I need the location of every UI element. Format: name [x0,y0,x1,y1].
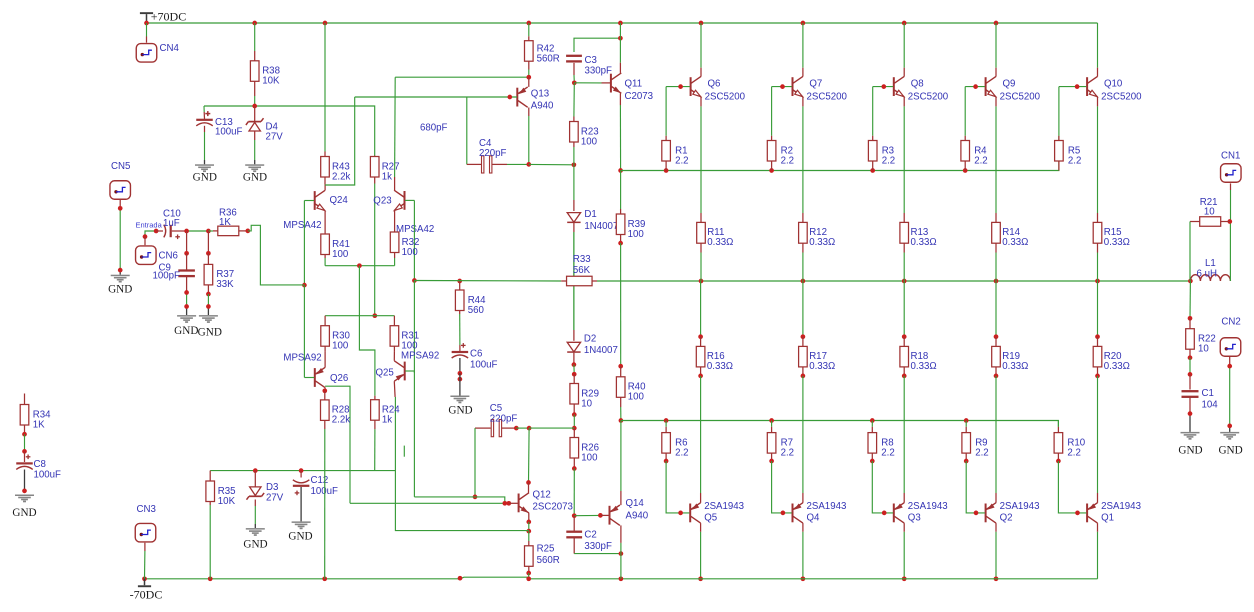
wire L1 right up [1229,222,1231,282]
wire C3 top [574,38,620,52]
svg-text:100uF: 100uF [34,470,62,481]
resistor R10 2.2 [1054,427,1086,461]
ground C13 [193,164,217,183]
label A940 [531,101,554,112]
svg-text:10: 10 [1198,344,1209,355]
wire Q23 collector to R42 node [395,77,529,190]
wire C10 to branch [187,230,209,232]
junction R17 bottom [801,374,806,379]
svg-text:100pF: 100pF [153,270,181,281]
junction D1 top [572,162,577,167]
wire top +70V rail [147,22,1098,24]
junction top rail Q11 [618,21,623,26]
wire branch to R36 [208,230,213,232]
junction Q11 base node [572,80,577,85]
resistor R15 0.33 [1093,213,1130,253]
wire tail to R24 [359,266,375,396]
resistor R33 56K [561,276,597,286]
svg-text:Q11: Q11 [625,79,643,90]
label Q12 [533,490,551,501]
svg-text:6 uH: 6 uH [1197,268,1217,279]
resistor R8 2.2 [868,427,895,461]
junction R9 bottom [964,459,969,464]
wire D1 to D2 [573,223,575,341]
label CN2 [1221,317,1240,328]
wire R5 to base [1058,87,1060,136]
wire R26 to Q14 base [573,469,575,516]
wire C5 left lead [475,427,491,429]
wire Q5 collector to bottom rail [700,523,702,579]
svg-text:330pF: 330pF [585,66,613,77]
resistor R1 2.2 [662,136,689,171]
capacitor C13 100uF [196,111,242,137]
resistor R18 0.33 [900,337,937,376]
svg-text:CN4: CN4 [160,43,180,54]
junction C6 gnd [458,377,463,382]
wire Q1 collector to bottom rail [1097,523,1099,579]
junction tail [357,263,362,268]
transistor Q4 2SA1943 [793,503,803,523]
junction orail Q10 [1095,279,1100,284]
wire Q26 collector node [324,388,326,391]
transistor Q5 2SA1943 [690,503,700,523]
wire bottom -70V rail [145,577,1098,579]
junction R39 bottom [618,241,623,246]
wire rail to Q7 collector [802,23,804,77]
junction C9 pin [184,251,189,256]
ground C8 [12,495,36,520]
resistor R25 560R [525,541,560,573]
wire Q12 collector line [528,428,531,482]
wire node to D4 [254,106,256,121]
svg-text:R25: R25 [537,544,555,555]
resistor R7 2.2 [767,427,794,461]
junction Q1 base [1075,511,1080,516]
wire R30 to Q26 emitter [324,351,326,367]
junction Q13 base [507,95,512,100]
svg-text:GND: GND [12,507,36,519]
svg-text:Q7: Q7 [809,78,822,89]
wire Q24 collector node [325,97,355,190]
junction brail R3 [870,168,875,173]
svg-text:2.2: 2.2 [975,447,988,458]
svg-text:A940: A940 [531,101,554,112]
svg-text:Q1: Q1 [1101,513,1114,524]
wire Q14 collector to rail [620,554,622,579]
label 56K [573,265,591,276]
svg-text:2SC5200: 2SC5200 [908,91,949,102]
junction R8 bottom [870,459,875,464]
svg-text:100: 100 [332,341,349,352]
svg-text:D1: D1 [584,209,596,220]
svg-text:1K: 1K [33,419,45,430]
svg-text:MPSA92: MPSA92 [283,353,321,364]
label 2SA1943 Q2 [1000,501,1040,512]
wire D2-R29 gap [573,365,575,375]
junction bottom rail R28 [322,576,327,581]
wire Q7 base [772,86,792,88]
resistor R37 33K [204,253,234,294]
wire D3 lead [254,471,256,487]
svg-text:Q12: Q12 [533,490,551,501]
wire top bases rail [621,136,1059,171]
wire orail to R19 [995,281,997,337]
wire -43V node wire [210,470,395,472]
wire D4 to GND [254,131,256,164]
resistor R19 0.33 [992,337,1029,376]
junction R22 top [1188,316,1193,321]
wire node to C13 [203,106,206,119]
resistor R21 10 [1190,197,1230,226]
resistor R23 100 [570,117,599,148]
wire R32 to tail [394,258,396,266]
wire CN2 to GND [1229,357,1231,432]
svg-text:L1: L1 [1205,258,1216,269]
wire Q14 base [574,514,600,516]
wire R9 from rail [965,421,967,427]
label Q8 [911,78,924,89]
label 2SA1943 Q5 [704,501,744,512]
junction Q23 base feedback [412,278,417,283]
wire C2 bottom [574,538,621,554]
svg-text:2SA1943: 2SA1943 [1000,501,1040,512]
resistor R17 0.33 [799,337,836,376]
wire Q26 collector branch [325,386,350,503]
resistor R2 2.2 [767,136,794,171]
ground C6 [448,396,472,417]
label Q7 [809,78,822,89]
junction Q14 collector [619,551,624,556]
wire R39 to R40 [620,243,622,366]
svg-text:56K: 56K [573,265,591,276]
junction lrail R9 [964,418,969,423]
wire Q26 to R28 [324,391,326,395]
wire Q25 collector down [395,397,528,531]
junction R26 bottom [572,466,577,471]
label 2SC5200 Q9 [1000,91,1041,102]
label Q4 [807,513,821,524]
wire R17 to Q4 emitter [802,376,804,503]
capacitor C5 220pF [490,403,518,437]
wire R22 to C1 [1189,358,1191,375]
wire Q8 emitter to R13 [903,97,905,213]
resistor R31 100 [390,316,419,352]
svg-text:Q6: Q6 [708,78,721,89]
stub artifact [403,446,405,457]
wire R25 to bottom rail [528,573,530,579]
wire feedback net [414,280,561,283]
wire D1 lead [573,165,575,211]
connector CN1 [1221,164,1242,183]
label CN5 [111,161,130,172]
svg-text:MPSA42: MPSA42 [283,220,321,231]
svg-text:CN2: CN2 [1221,317,1240,328]
svg-text:+70DC: +70DC [151,10,186,24]
svg-text:CN3: CN3 [137,504,156,515]
resistor R3 2.2 [868,136,895,171]
svg-text:2SC5200: 2SC5200 [1101,91,1142,102]
junction R29 bottom [572,412,577,417]
wire R6 to Q5 base [666,461,689,513]
svg-text:1N4007: 1N4007 [584,221,618,232]
capacitor C9 100pF [153,253,195,281]
svg-text:0.33Ω: 0.33Ω [911,361,937,372]
resistor R27 1k [370,156,399,184]
svg-text:2.2: 2.2 [675,447,688,458]
inductor L1 6uH [1190,258,1230,281]
junction Q6 base [678,84,683,89]
svg-text:2.2: 2.2 [882,155,895,166]
junction Q8 base [881,84,886,89]
resistor R38 10K [250,51,280,96]
wire Q12 emitter to R25 [528,531,530,541]
ground CN2 [1218,432,1242,457]
label Q5 [704,513,717,524]
wire Q24 base to Q26 base [303,285,305,377]
svg-text:Q9: Q9 [1003,78,1016,89]
junction Q3 base [882,511,887,516]
svg-text:Q14: Q14 [626,498,645,509]
junction R40 lower rail [619,418,624,423]
wire R10 from rail [1057,421,1059,427]
capacitor C6 100uF [452,343,498,370]
wire C4 branch down [466,97,468,164]
wire bases column lower [413,371,415,497]
wire Q24 emitter to R41 [324,211,326,231]
wire Q12 base pin [509,502,518,504]
label CN4 [160,43,180,54]
wire R8 to Q3 base [872,461,893,513]
junction C9 top [184,229,189,234]
wire R14 to output rail [995,253,997,282]
svg-text:0.33Ω: 0.33Ω [1104,237,1130,248]
svg-text:CN1: CN1 [1221,151,1240,162]
ground C1 [1178,432,1202,457]
ground CN5 [108,275,132,296]
label 2SA1943 Q1 [1101,501,1141,512]
resistor R28 2.2k [321,395,351,429]
wire R18 to Q3 emitter [903,376,905,503]
wire Q11 collector [619,23,621,73]
svg-text:220pF: 220pF [490,414,518,425]
wire R12 to output rail [802,253,804,282]
wire R40 to lower rail [620,407,622,421]
svg-text:Q4: Q4 [807,513,821,524]
label Q6 [708,78,721,89]
wire R1 to base [665,87,667,136]
ground C9 [174,315,198,337]
junction C5 left node [473,495,478,500]
wire R11 to output rail [700,253,702,282]
wire C6 gnd lead [459,373,461,395]
junction Q12 base 1 [502,501,507,506]
svg-text:10: 10 [1204,207,1215,218]
wire R27 to R30/R31 node [374,184,376,316]
wire R23 to D1 node [573,147,575,165]
svg-text:C2: C2 [584,530,596,541]
label Q23 [373,196,391,207]
junction Q7 base [780,84,785,89]
junction R20 bottom [1095,374,1100,379]
wire R3 to base [872,87,874,136]
wire C5 left down [474,428,476,497]
connector CN4 [136,44,157,63]
svg-text:C2073: C2073 [625,91,654,102]
label Q10 [1104,78,1123,89]
label 2SC2073 [533,502,573,513]
svg-text:2SA1943: 2SA1943 [704,501,744,512]
wire rail corner to Q10 collector [1097,23,1099,77]
resistor R29 10 [570,374,599,414]
svg-text:100: 100 [628,229,645,240]
wire R21 left down [1189,222,1191,282]
svg-text:100: 100 [628,392,645,403]
ground D3 [243,528,267,550]
junction Q2 base [974,511,979,516]
svg-text:1uF: 1uF [163,218,180,229]
wire Q14 collector [620,525,622,553]
resistor R43 2.2k [321,152,351,185]
wire diff tail [325,265,395,267]
svg-text:2SA1943: 2SA1943 [807,501,847,512]
wire R15 to output rail [1097,253,1099,282]
svg-text:GND: GND [243,171,267,183]
wire R30/R31 top wire [325,315,394,317]
junction CN2 pin [1227,364,1232,369]
resistor R14 0.33 [992,213,1029,253]
svg-text:CN5: CN5 [111,161,130,172]
resistor R41 100 [321,231,350,260]
junction Q26 collector [322,388,327,393]
wire orail to R18 [903,281,905,337]
capacitor C10 1uF [156,209,187,240]
svg-text:330pF: 330pF [584,541,612,552]
capacitor C12 100uF [293,475,338,497]
wire CN5 to GND [119,200,121,275]
wire Q6 base [666,86,690,88]
wire Q13 collector [528,108,530,165]
transistor Q10 2SC5200 [1087,76,1097,96]
svg-text:Q8: Q8 [911,78,924,89]
wire Q25 base [405,370,414,372]
svg-text:0.33Ω: 0.33Ω [809,237,835,248]
junction C3 top [618,36,623,41]
wire orail to R17 [802,281,804,337]
svg-text:2SA1943: 2SA1943 [1101,501,1141,512]
resistor R22 10 [1186,318,1216,357]
connector CN6 [136,246,157,265]
junction orail Q8 [902,279,907,284]
junction R20 top [1095,334,1100,339]
wire R8 from rail [871,421,873,427]
svg-text:0.33Ω: 0.33Ω [1104,361,1130,372]
svg-text:Entrada: Entrada [136,220,163,229]
svg-text:0.33Ω: 0.33Ω [707,237,733,248]
junction C4 right [526,162,531,167]
label 2SA1943 Q4 [807,501,847,512]
label CN3 [137,504,156,515]
junction D4 top [252,104,257,109]
junction CN2 gnd [1227,424,1232,429]
wire Q3 collector to bottom rail [903,523,905,579]
label C2073 [625,91,654,102]
resistor R30 100 [321,316,351,352]
resistor R39 100 [616,209,645,243]
resistor R11 0.33 [697,213,734,253]
resistor R16 0.33 [696,337,733,376]
svg-text:GND: GND [174,325,198,337]
svg-text:GND: GND [198,327,222,339]
svg-text:560R: 560R [537,54,560,65]
label Q25 [376,368,394,379]
transistor Q6 2SC5200 [691,76,701,96]
wire R7 to Q4 base [772,461,792,513]
svg-text:100: 100 [581,452,598,463]
junction C1 bottom [1188,411,1193,416]
transistor Q26 MPSA92 [315,367,325,387]
junction bottom rail stub [458,576,463,581]
svg-text:2SC2073: 2SC2073 [533,502,573,513]
svg-text:Q3: Q3 [908,513,921,524]
transistor Q1 2SA1943 [1087,503,1097,523]
label Q13 [531,89,549,100]
wire D3 to GND [254,500,256,529]
wire rail to Q8 collector [903,23,905,77]
junction CN5 gnd [118,268,123,273]
wire C4 to R23/D1 [529,163,574,165]
svg-text:GND: GND [193,171,217,183]
wire CN1 lead [1230,183,1232,221]
svg-text:220pF: 220pF [479,148,507,159]
junction bottom rail Q2 [994,576,999,581]
wire C12 to GND [300,487,302,521]
svg-text:GND: GND [448,405,472,417]
power symbol -70DC [130,577,163,601]
wire Q13 base net [355,96,517,98]
svg-text:R33: R33 [573,254,591,265]
junction Q12 emitter pin [526,520,531,525]
svg-text:Q2: Q2 [1000,513,1013,524]
junction R16 top [698,334,703,339]
transistor Q3 2SA1943 [894,503,904,523]
wire R16 to Q5 emitter [700,376,702,503]
svg-text:Q23: Q23 [373,196,391,207]
junction R36 right [245,229,250,234]
wire C13 to GND [204,126,206,165]
svg-text:100uF: 100uF [215,127,243,138]
wire C9 to GND [186,277,188,315]
wire R42 to Q13 [528,70,530,78]
svg-text:2SC5200: 2SC5200 [705,91,746,102]
wire R24 to -43 node [374,429,376,470]
wire R7 from rail [771,421,773,427]
junction brail R4 [963,168,968,173]
label MPSA42 Q23 [396,224,434,235]
wire rail to R38 [254,23,256,51]
junction brail R2 [769,168,774,173]
svg-text:2.2: 2.2 [781,447,794,458]
wire Q4 collector to bottom rail [802,523,804,579]
junction R22 bottom [1188,355,1193,360]
label MPSA42 Q24 [283,220,321,231]
junction top rail R38 [252,21,257,26]
wire output rail [597,280,1190,282]
junction bottom rail Q14 [619,576,624,581]
transistor Q8 2SC5200 [894,76,904,96]
svg-text:GND: GND [1178,445,1202,457]
svg-text:1K: 1K [219,217,231,228]
resistor R13 0.33 [900,213,937,253]
